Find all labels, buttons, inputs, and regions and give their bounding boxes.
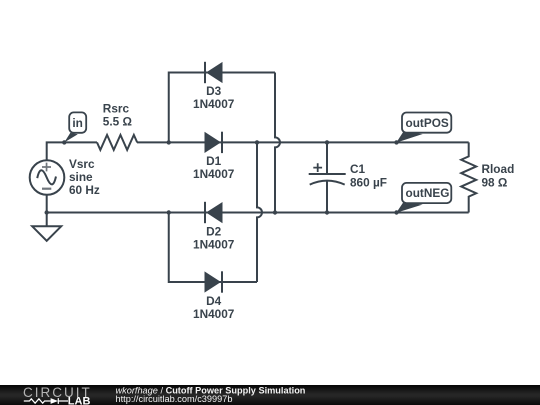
svg-text:Vsrc: Vsrc bbox=[69, 157, 95, 171]
svg-text:1N4007: 1N4007 bbox=[193, 307, 235, 321]
svg-text:outPOS: outPOS bbox=[406, 116, 449, 130]
ground bbox=[32, 213, 61, 241]
wire in-top: Vsrc plus to Rsrc bbox=[47, 142, 97, 160]
wire Rsrc to node A bbox=[137, 141, 469, 143]
voltage source Vsrc sine wave bbox=[37, 169, 57, 186]
node dot outNEG bbox=[394, 210, 398, 214]
label Rsrc value bbox=[103, 101, 132, 128]
svg-text:5.5 Ω: 5.5 Ω bbox=[103, 115, 132, 129]
node junction D2 D4 branch bbox=[167, 210, 171, 214]
wire left rail up to D3 branch bbox=[169, 73, 275, 143]
label D1 value bbox=[193, 154, 235, 181]
label D3 value bbox=[193, 84, 235, 111]
flag node outPOS bbox=[396, 113, 451, 143]
capacitor C1 top lead bbox=[326, 142, 328, 174]
svg-text:D3: D3 bbox=[206, 84, 222, 98]
wire D4 branch bbox=[169, 213, 257, 283]
node dot outPOS bbox=[394, 140, 398, 144]
voltage source Vsrc circle bbox=[30, 160, 65, 195]
logo LAB text bbox=[68, 395, 91, 405]
logo resistor diode glyph bbox=[24, 398, 68, 404]
svg-text:1N4007: 1N4007 bbox=[193, 237, 235, 251]
wire right rail D3 to outNEG with hop over outPOS wire bbox=[275, 73, 280, 213]
label Rload value bbox=[482, 162, 515, 189]
svg-text:Rsrc: Rsrc bbox=[103, 101, 130, 115]
footer title line bbox=[116, 385, 306, 403]
svg-text:1N4007: 1N4007 bbox=[193, 97, 235, 111]
svg-text:860 µF: 860 µF bbox=[350, 176, 387, 190]
svg-text:Rload: Rload bbox=[482, 162, 515, 176]
wire Vsrc minus to bottom rail bbox=[47, 195, 469, 213]
node junction C1 top bbox=[325, 140, 329, 144]
resistor Rsrc bbox=[97, 135, 137, 150]
voltage source plus sign bbox=[42, 163, 51, 172]
svg-text:sine: sine bbox=[69, 170, 93, 184]
label C1 value bbox=[350, 162, 387, 189]
svg-text:60 Hz: 60 Hz bbox=[69, 183, 100, 197]
flag node outNEG bbox=[396, 183, 451, 213]
flag node in bbox=[64, 112, 86, 142]
node junction D1 cathode rail bbox=[255, 140, 259, 144]
svg-text:D4: D4 bbox=[206, 294, 222, 308]
svg-text:LAB: LAB bbox=[68, 395, 91, 405]
svg-text:outNEG: outNEG bbox=[406, 186, 450, 200]
svg-text:D1: D1 bbox=[206, 154, 222, 168]
svg-text:in: in bbox=[72, 116, 82, 130]
svg-text:98 Ω: 98 Ω bbox=[482, 176, 508, 190]
node junction C1 bottom bbox=[325, 210, 329, 214]
node junction D3 rail outNEG bbox=[273, 210, 277, 214]
svg-text:C1: C1 bbox=[350, 162, 366, 176]
diode D2 bbox=[205, 202, 222, 223]
node junction A after Rsrc bbox=[167, 140, 171, 144]
capacitor C1 bottom lead bbox=[326, 181, 328, 213]
label D2 value bbox=[193, 224, 235, 251]
label Vsrc value bbox=[69, 157, 100, 197]
svg-text:D2: D2 bbox=[206, 224, 222, 238]
logo CircuitLab wordmark bbox=[23, 385, 92, 400]
voltage source minus sign bbox=[42, 188, 51, 190]
diode D3 bbox=[205, 62, 222, 83]
wire rail D1 out to D4 with hop over outNEG wire bbox=[257, 142, 262, 282]
svg-text:1N4007: 1N4007 bbox=[193, 167, 235, 181]
svg-text:http://circuitlab.com/c39997b: http://circuitlab.com/c39997b bbox=[116, 393, 233, 403]
diode D1 bbox=[205, 132, 222, 153]
node dot in bbox=[62, 140, 66, 144]
capacitor C1 plus sign bbox=[313, 163, 322, 172]
capacitor C1 plates bbox=[309, 174, 346, 185]
node junction Vsrc minus ground bbox=[45, 210, 49, 214]
resistor Rload bbox=[461, 142, 476, 212]
label D4 value bbox=[193, 294, 235, 321]
diode D4 bbox=[205, 271, 222, 292]
